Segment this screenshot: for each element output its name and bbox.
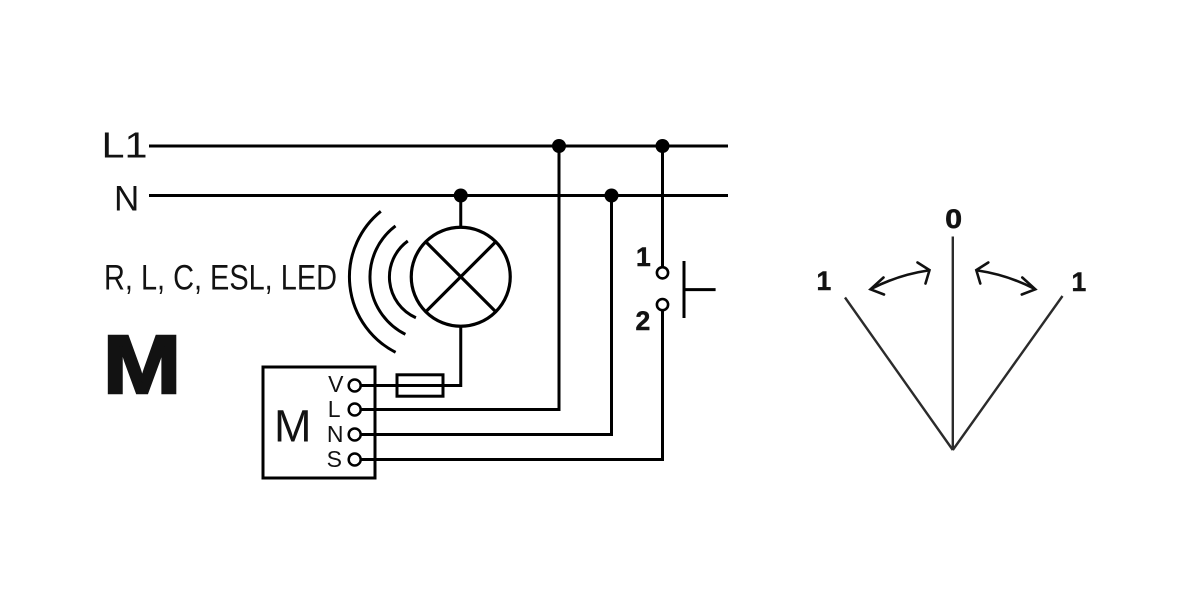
svg-text:V: V: [328, 371, 344, 397]
sound wave arc outer: [349, 211, 395, 352]
switch position diagram: vertical lever line: [952, 237, 954, 451]
wire N line: [149, 194, 728, 197]
switch position diagram: right lever line: [953, 296, 1063, 450]
svg-text:N: N: [114, 180, 139, 219]
switch contact 2 circle: [657, 299, 668, 310]
svg-text:L1: L1: [102, 125, 148, 166]
wire L terminal to L1 drop: [361, 146, 559, 410]
wire S terminal to switch contact 2: [361, 310, 663, 459]
node junction dot on L1 at x=559: [552, 139, 566, 153]
wire L1 line: [149, 145, 728, 148]
switch position diagram: left lever line: [845, 298, 953, 451]
switch contact 1 circle: [657, 267, 668, 278]
sensor module box M: [263, 367, 375, 478]
node junction dot on L1 at x=662.5: [656, 139, 670, 153]
svg-text:1: 1: [1072, 267, 1087, 297]
svg-text:1: 1: [817, 266, 832, 296]
node junction dot on N at x=460.75: [454, 189, 468, 203]
node junction dot on N at x=611.5: [605, 189, 619, 203]
right rotation arrow: [976, 263, 1035, 295]
svg-text:R, L, C, ESL, LED: R, L, C, ESL, LED: [104, 259, 337, 298]
svg-text:1: 1: [636, 242, 651, 272]
wire from lamp bottom down and left to fuse: [443, 326, 461, 385]
svg-text:L: L: [328, 396, 341, 422]
terminal circle N: [349, 429, 361, 441]
lamp E1 circle: [411, 227, 510, 326]
left rotation arrow: [871, 263, 930, 295]
sound wave arc inner: [389, 241, 415, 318]
wire from N node down to lamp top: [459, 196, 462, 229]
wire N terminal to N drop: [361, 196, 612, 435]
fuse F1 body: [397, 375, 443, 396]
pushbutton S1 actuator bracket: [684, 261, 716, 318]
fuse F1 wire through: [361, 384, 443, 387]
lamp E1 cross: [426, 242, 496, 312]
svg-text:S: S: [327, 446, 342, 472]
svg-text:M: M: [274, 400, 312, 451]
terminal circle L: [349, 404, 361, 416]
svg-text:N: N: [327, 421, 344, 447]
svg-text:M: M: [103, 318, 181, 411]
svg-text:2: 2: [636, 306, 651, 336]
svg-text:0: 0: [945, 204, 962, 234]
wire L1 node down to switch contact 1: [661, 146, 664, 267]
terminal circle S: [349, 454, 361, 466]
terminal circle V: [349, 380, 361, 392]
sound wave arc middle: [370, 226, 405, 334]
